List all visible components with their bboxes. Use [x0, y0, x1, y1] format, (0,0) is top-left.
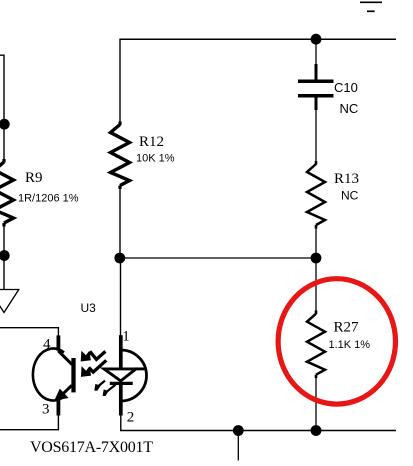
- ground (clipped, top right): [360, 2, 382, 11]
- svg-text:1: 1: [122, 329, 130, 345]
- wire node to R27: [315, 258, 317, 311]
- svg-text:U3: U3: [81, 301, 97, 315]
- wire U3 pin3 bottom left: [0, 416, 58, 430]
- svg-text:R12: R12: [139, 134, 164, 150]
- wire into R9: [3, 124, 5, 159]
- svg-text:1.1K 1%: 1.1K 1%: [329, 339, 371, 351]
- wire left top corner: [0, 55, 4, 121]
- wire R13 to node: [315, 229, 317, 259]
- wire bottom horizontal: [120, 430, 396, 432]
- transistor Q (U3 detector): [33, 335, 74, 400]
- resistor R9: [0, 159, 14, 227]
- svg-text:C10: C10: [334, 80, 358, 95]
- svg-text:R13: R13: [334, 171, 359, 187]
- red marker circle: [278, 279, 395, 404]
- wire U3 pin4 top left: [0, 328, 58, 336]
- node junction left lower: [0, 250, 10, 261]
- svg-text:VOS617A-7X001T: VOS617A-7X001T: [30, 439, 153, 456]
- svg-text:NC: NC: [340, 101, 359, 116]
- svg-text:R9: R9: [25, 170, 43, 186]
- pin 3 lead: [57, 398, 61, 416]
- node junction C10/top: [311, 34, 322, 45]
- resistor R12: [111, 122, 130, 190]
- light arrow 2 (bold): [81, 360, 106, 377]
- svg-text:2: 2: [127, 410, 135, 426]
- resistor R27: [307, 311, 325, 379]
- node junction mid left: [114, 253, 125, 264]
- wire R12 branch top: [119, 39, 121, 121]
- wire C10 lead upper: [315, 39, 317, 64]
- svg-text:10K 1%: 10K 1%: [136, 153, 175, 165]
- light arrow 4 (small): [103, 385, 116, 396]
- capacitor C10: [298, 64, 334, 110]
- svg-text:NC: NC: [341, 189, 359, 203]
- wire R27 to bottom: [315, 378, 317, 431]
- light arrow 1 (bold): [81, 351, 106, 362]
- svg-text:R27: R27: [334, 320, 360, 336]
- wire node to ground: [3, 256, 5, 290]
- wire R9 to node: [3, 227, 5, 256]
- wire top horizontal: [119, 38, 396, 40]
- emitter arrowhead Q: [54, 389, 68, 401]
- light arrow 3 (small): [94, 381, 105, 391]
- wire C10 to R13: [315, 110, 317, 161]
- node junction left upper: [0, 119, 10, 130]
- node junction mid right: [311, 253, 322, 264]
- resistor R13: [307, 161, 325, 229]
- svg-text:1R/1206 1%: 1R/1206 1%: [18, 193, 79, 205]
- ground (left, triangle): [0, 290, 19, 313]
- wire node to LED pin1: [120, 258, 122, 336]
- wire LED pin2 to bottom: [120, 416, 122, 431]
- wire R12 to node: [119, 189, 121, 258]
- LED (U3 emitter): [104, 335, 147, 415]
- wire bottom stub down: [237, 431, 239, 461]
- node junction bottom right: [311, 425, 322, 436]
- node junction bottom stub: [233, 425, 244, 436]
- wire mid horizontal: [120, 257, 317, 259]
- svg-text:3: 3: [42, 402, 50, 418]
